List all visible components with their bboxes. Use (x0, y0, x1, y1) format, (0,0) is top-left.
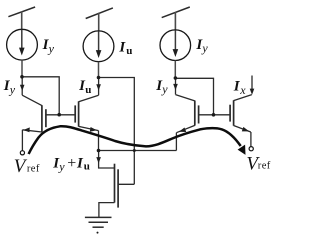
svg-text:y: y (58, 159, 65, 173)
svg-text:u: u (84, 161, 90, 173)
svg-text:u: u (85, 84, 91, 96)
svg-text:I: I (118, 39, 126, 55)
svg-text:V: V (14, 156, 28, 177)
svg-text:y: y (161, 82, 168, 96)
svg-text:y: y (9, 82, 16, 96)
svg-text:ref: ref (258, 160, 271, 171)
svg-text:y: y (48, 41, 55, 55)
svg-text:y: y (201, 41, 208, 55)
svg-text:I: I (76, 155, 84, 171)
svg-text:+: + (67, 155, 76, 172)
svg-text:x: x (239, 83, 246, 97)
svg-text:ref: ref (27, 163, 40, 174)
svg-text:u: u (126, 45, 132, 57)
